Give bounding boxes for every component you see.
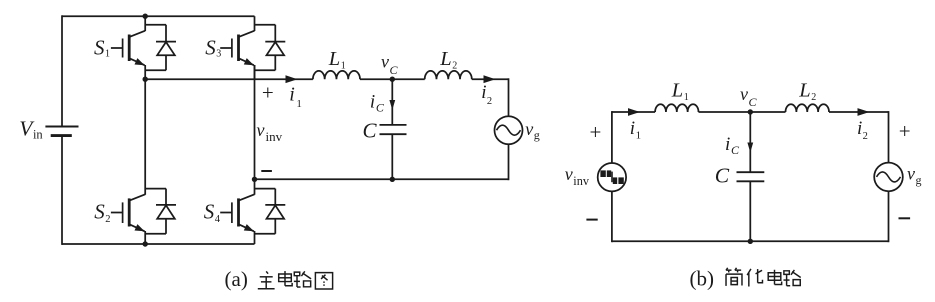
label - (v_inv polarity) xyxy=(586,219,597,221)
inductor L2 xyxy=(786,104,830,112)
capacitor C xyxy=(380,125,407,134)
wire S1 collector lead and diode branch xyxy=(145,16,166,31)
wire: capacitor top lead xyxy=(391,79,393,125)
inductor L1 xyxy=(313,71,360,79)
transistor S2 (IGBT) xyxy=(94,194,146,234)
node: capacitor bottom junction xyxy=(748,239,753,244)
wire: left DC rail lower segment xyxy=(61,136,63,245)
voltage source V_in (battery) xyxy=(19,116,78,141)
label - (v_inv polarity) xyxy=(261,170,272,172)
svg-text:(a): (a) xyxy=(225,267,248,291)
node A: left leg midpoint xyxy=(143,77,148,82)
svg-text:(b): (b) xyxy=(690,267,715,291)
wire: v_g bottom lead xyxy=(888,191,890,242)
wire: bottom DC rail xyxy=(62,243,255,245)
wire S1 emitter lead xyxy=(144,65,146,79)
voltage source v_g (AC grid) xyxy=(874,163,903,192)
arrow: current i1 xyxy=(628,108,640,116)
wire: bottom return rail xyxy=(612,240,889,242)
arrow: current iC xyxy=(747,143,753,153)
wire: v_g top lead xyxy=(888,111,890,163)
wire: L2 to v_g xyxy=(829,111,889,113)
caption text: jian hua dian lu xyxy=(726,268,742,286)
node: top rail junction to S1 xyxy=(143,14,148,19)
wire: top DC rail xyxy=(62,15,255,17)
wire S3 collector lead and diode branch xyxy=(255,16,276,31)
wire: capacitor bottom lead xyxy=(391,134,393,179)
wire: grid source top lead xyxy=(508,78,510,116)
wire: top wire v_inv to L1 xyxy=(612,111,655,113)
node vC xyxy=(390,77,395,82)
inductor L2 xyxy=(425,71,472,79)
node: capacitor to bottom return xyxy=(390,177,395,182)
antiparallel diode of S2 xyxy=(145,189,176,234)
wire: capacitor bottom lead xyxy=(749,181,751,241)
svg-text:C: C xyxy=(715,163,730,187)
wire S2 collector lead and diode branch xyxy=(145,79,166,195)
wire: right leg midpoint column (S3 emitter down to node B, crosses output wire) xyxy=(254,65,256,179)
arrow: current i2 xyxy=(858,108,870,116)
wire: L2 to grid source xyxy=(472,78,509,80)
arrow: current i2 xyxy=(484,75,496,83)
wire: v_inv top lead xyxy=(611,111,613,163)
wire S3 emitter lead xyxy=(254,65,256,79)
wire: v_inv bottom lead xyxy=(611,191,613,242)
transistor S4 (IGBT) xyxy=(204,194,256,234)
wire: capacitor top lead xyxy=(749,112,751,172)
wire: filter bottom return rail xyxy=(255,178,509,180)
wire S4 collector lead and diode branch xyxy=(255,179,276,194)
label - (v_g polarity) xyxy=(899,217,911,219)
svg-text:C: C xyxy=(363,119,378,143)
antiparallel diode of S4 xyxy=(255,189,286,234)
wire: grid source bottom lead xyxy=(508,144,510,180)
node: bottom rail junction to S2 emitter xyxy=(143,241,148,246)
wire: bridge output (node A) to L1 xyxy=(145,78,313,80)
wire: L1 to node vC xyxy=(699,111,786,113)
arrow: current i1 xyxy=(286,75,298,83)
antiparallel diode of S1 xyxy=(145,25,176,71)
transistor S1 (IGBT) xyxy=(94,31,146,69)
caption text: zhu dian lu tu xyxy=(258,271,275,288)
arrow: current iC xyxy=(389,100,395,110)
wire S4 emitter lead xyxy=(254,231,256,244)
svg-text:+: + xyxy=(899,119,911,143)
node B: right leg midpoint xyxy=(252,177,257,182)
wire S2 emitter lead xyxy=(144,231,146,244)
wire: left DC rail upper segment xyxy=(61,15,63,126)
wire: L1 to node vC xyxy=(360,78,425,80)
voltage source v_inv (PWM) xyxy=(598,163,626,191)
svg-text:+: + xyxy=(262,81,274,105)
transistor S3 (IGBT) xyxy=(205,31,255,69)
svg-text:+: + xyxy=(590,120,602,144)
voltage source v_g (AC grid) xyxy=(495,116,523,144)
antiparallel diode of S3 xyxy=(255,25,286,71)
inductor L1 xyxy=(655,104,698,112)
capacitor C xyxy=(737,172,765,181)
node vC xyxy=(748,109,753,114)
